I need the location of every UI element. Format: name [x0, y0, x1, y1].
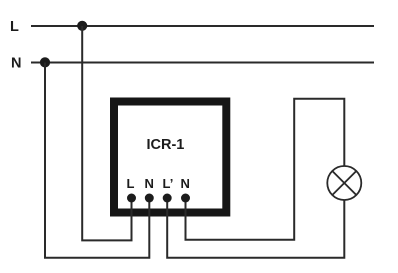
svg-text:ICR-1: ICR-1: [147, 137, 185, 153]
lamp symbol: [327, 166, 361, 200]
svg-text:N: N: [181, 176, 190, 191]
svg-text:L: L: [10, 19, 19, 35]
svg-text:N: N: [145, 176, 154, 191]
node junction on L bus: [77, 21, 87, 31]
svg-text:N: N: [11, 56, 21, 72]
node junction on N bus: [40, 57, 50, 67]
wire N feed to terminal N: [45, 63, 149, 258]
pin terminal dot N (output): [181, 194, 190, 203]
svg-text:L: L: [127, 176, 135, 191]
pin terminal dot L': [163, 194, 172, 203]
pin terminal dot N: [145, 194, 154, 203]
pin terminal dot L: [127, 194, 136, 203]
wire L feed to terminal L: [82, 26, 131, 240]
wire terminal N out to lamp top: [186, 99, 345, 240]
svg-text:L’: L’: [163, 176, 174, 191]
wire L bus: [31, 25, 374, 27]
relay module ICR-1 box: [114, 102, 226, 213]
wire terminal L' to lamp bottom: [167, 198, 344, 258]
wire N bus: [31, 62, 374, 64]
